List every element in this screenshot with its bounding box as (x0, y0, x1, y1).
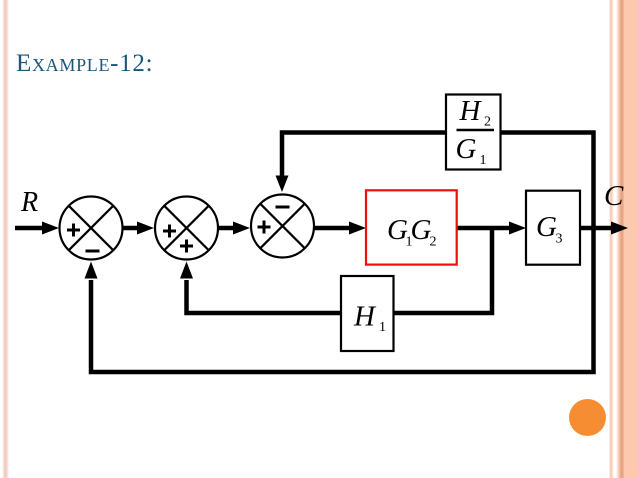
svg-text:H: H (459, 95, 483, 127)
wire S3 to G1G2 (315, 226, 353, 231)
wire input R (15, 226, 45, 231)
orange circle bottom right (569, 399, 606, 436)
svg-text:G: G (456, 133, 477, 165)
block H2/G1 (446, 95, 501, 170)
block G1G2 (red) (366, 190, 457, 264)
S2 cross (164, 206, 209, 251)
arrowhead into S1 (42, 222, 59, 235)
svg-text:2: 2 (484, 115, 491, 130)
wire H2/G1 output to drop at S3 (282, 133, 446, 178)
label G1 (456, 133, 487, 168)
wire G1G2 to G3 (457, 226, 513, 231)
S1 cross (69, 206, 114, 251)
left pink border stripe (2, 0, 9, 478)
block G3 (526, 191, 580, 265)
S1 minus sign bottom (86, 250, 100, 253)
S3 plus sign left (258, 221, 271, 234)
arrowhead into S3 (233, 222, 250, 235)
label H1 (353, 301, 386, 336)
label C output (604, 180, 624, 212)
wire outer feedback takeoff down after G3 (91, 228, 594, 372)
fraction bar (457, 129, 495, 131)
wire S2 to S3 (219, 226, 237, 231)
block H1 (341, 276, 394, 351)
right salmon border band (607, 0, 638, 478)
svg-text:1: 1 (480, 153, 487, 168)
summing junction S2 (155, 197, 218, 260)
S3 cross (260, 204, 305, 249)
arrowhead up into S2 bottom (180, 262, 193, 279)
wire takeoff after G1G2 down to H1 (394, 228, 493, 313)
S2 plus sign bottom (180, 240, 193, 253)
arrowhead output C (611, 222, 628, 235)
S1 plus sign left (67, 224, 80, 237)
arrowhead down into S3 top (276, 176, 289, 193)
S2 plus sign left (163, 225, 176, 238)
wire H1 output to rise at S2 (187, 280, 342, 313)
arrowhead into G3 (509, 222, 526, 235)
svg-text:1: 1 (379, 320, 386, 335)
arrowhead into S2 (137, 222, 154, 235)
S3 minus sign top (276, 206, 290, 209)
wire G3 to output C (580, 226, 615, 231)
summing junction S3 (251, 195, 314, 258)
svg-text:3: 3 (556, 232, 563, 247)
label R input (20, 187, 38, 218)
wire S1 to S2 (123, 226, 141, 231)
label H2 (459, 95, 492, 130)
svg-text:2: 2 (430, 235, 437, 250)
svg-text:R: R (20, 187, 38, 218)
title EXAMPLE-12: (16, 50, 153, 78)
summing junction S1 (60, 197, 123, 260)
wire takeoff after G3 up to H2/G1 line (501, 133, 594, 229)
arrowhead up into S1 bottom (85, 262, 98, 279)
label G1G2 (387, 214, 437, 250)
svg-text:H: H (353, 301, 377, 333)
svg-text:C: C (604, 180, 624, 212)
svg-text:G: G (411, 214, 432, 246)
label G3 (536, 211, 563, 247)
arrowhead into G1G2 (349, 222, 366, 235)
svg-text:G: G (536, 211, 557, 243)
